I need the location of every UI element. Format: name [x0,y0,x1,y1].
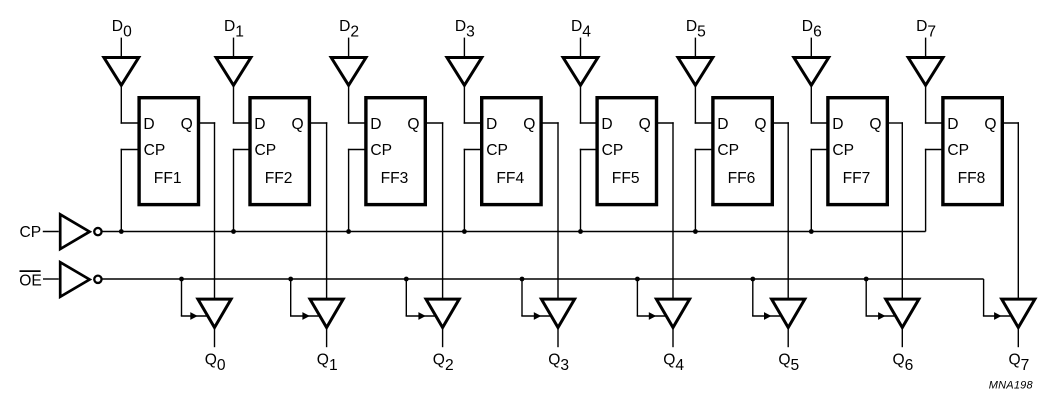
svg-text:Q: Q [407,116,419,133]
svg-text:CP: CP [370,142,392,159]
svg-text:CP: CP [144,142,166,159]
svg-text:CP: CP [717,142,739,159]
svg-text:CP: CP [486,142,508,159]
svg-text:FF5: FF5 [612,170,640,187]
svg-text:CP: CP [20,224,42,241]
svg-text:D: D [486,116,497,133]
svg-text:CP: CP [255,142,277,159]
svg-text:FF8: FF8 [958,170,986,187]
svg-text:OE: OE [19,273,42,290]
svg-text:FF4: FF4 [496,170,524,187]
svg-text:FF6: FF6 [728,170,756,187]
svg-text:FF2: FF2 [265,170,293,187]
svg-text:FF3: FF3 [381,170,409,187]
svg-text:FF7: FF7 [843,170,871,187]
svg-text:D: D [601,116,612,133]
svg-text:CP: CP [832,142,854,159]
svg-text:CP: CP [947,142,969,159]
svg-text:D: D [370,116,381,133]
svg-text:Q: Q [754,116,766,133]
svg-text:D: D [717,116,728,133]
svg-text:Q: Q [523,116,535,133]
svg-text:D: D [143,116,154,133]
svg-text:D: D [947,116,958,133]
svg-text:Q: Q [639,116,651,133]
svg-text:FF1: FF1 [154,170,182,187]
svg-text:Q: Q [181,116,193,133]
svg-text:Q: Q [869,116,881,133]
svg-text:D: D [254,116,265,133]
svg-text:Q: Q [292,116,304,133]
svg-text:CP: CP [602,142,624,159]
svg-text:MNA198: MNA198 [989,380,1034,392]
svg-text:D: D [832,116,843,133]
svg-text:Q: Q [984,116,996,133]
